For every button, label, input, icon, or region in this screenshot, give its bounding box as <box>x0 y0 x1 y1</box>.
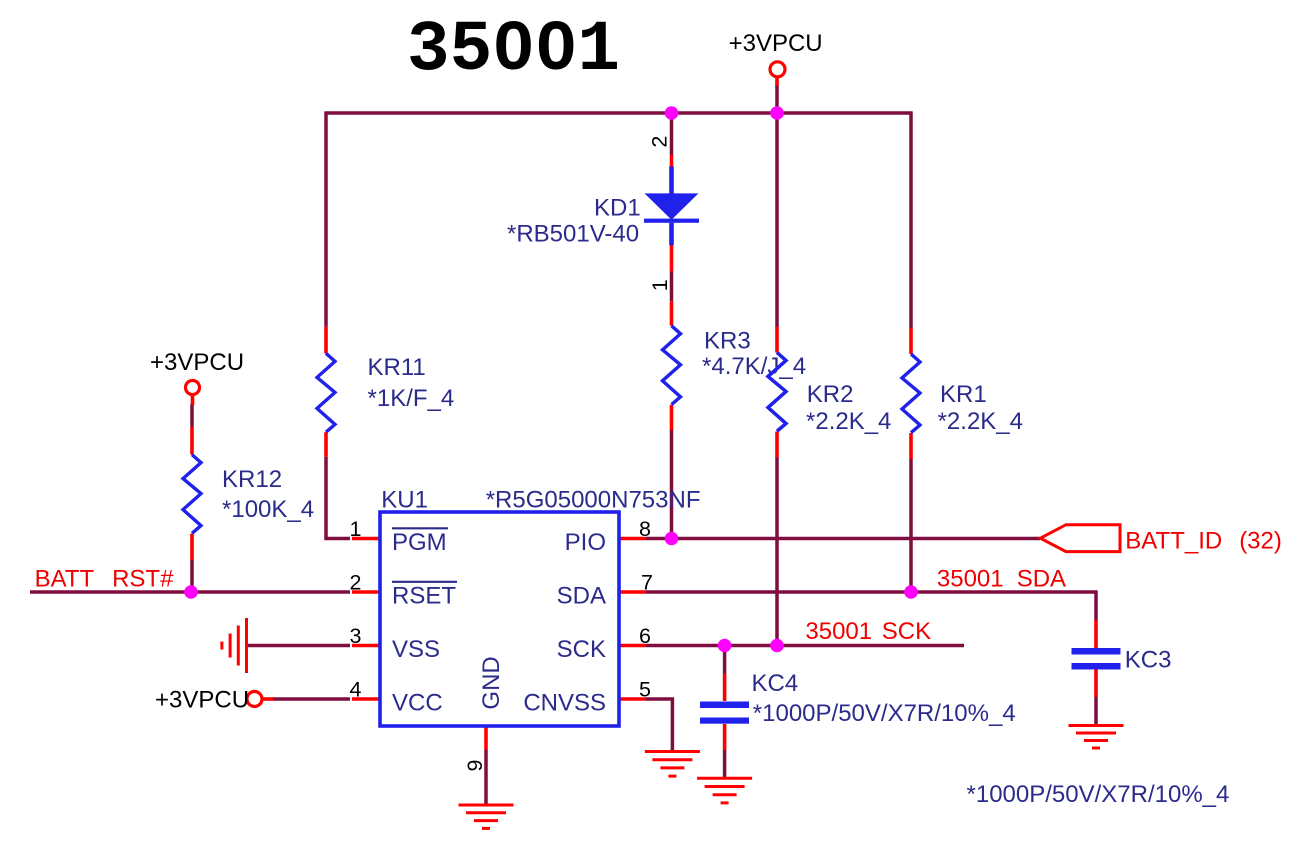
svg-text:2: 2 <box>350 571 362 595</box>
svg-text:PIO: PIO <box>565 529 606 556</box>
svg-text:35001: 35001 <box>937 566 1004 593</box>
svg-text:5: 5 <box>639 678 651 702</box>
svg-text:9: 9 <box>463 760 487 772</box>
svg-text:GND: GND <box>478 656 505 709</box>
svg-text:*1000P/50V/X7R/10%_4: *1000P/50V/X7R/10%_4 <box>967 781 1230 808</box>
svg-text:*4.7K/J_4: *4.7K/J_4 <box>702 353 806 380</box>
svg-text:*100K_4: *100K_4 <box>222 496 314 523</box>
svg-text:*2.2K_4: *2.2K_4 <box>806 408 891 435</box>
svg-text:KC4: KC4 <box>752 670 799 697</box>
svg-text:+3VPCU: +3VPCU <box>150 349 244 376</box>
svg-text:SDA: SDA <box>1017 566 1066 593</box>
svg-text:7: 7 <box>641 571 653 595</box>
svg-text:8: 8 <box>639 517 651 541</box>
svg-text:BATT: BATT <box>35 566 95 593</box>
svg-text:CNVSS: CNVSS <box>523 690 606 717</box>
svg-text:VSS: VSS <box>392 636 440 663</box>
svg-text:*1K/F_4: *1K/F_4 <box>368 385 455 412</box>
svg-text:SCK: SCK <box>557 636 606 663</box>
svg-text:4: 4 <box>350 678 362 702</box>
svg-text:*1000P/50V/X7R/10%_4: *1000P/50V/X7R/10%_4 <box>753 700 1016 727</box>
svg-text:*2.2K_4: *2.2K_4 <box>938 408 1023 435</box>
svg-text:PGM: PGM <box>392 529 447 556</box>
svg-text:BATT_ID: BATT_ID <box>1125 527 1222 554</box>
svg-text:(32): (32) <box>1239 527 1282 554</box>
svg-text:+3VPCU: +3VPCU <box>729 30 823 57</box>
svg-text:KR12: KR12 <box>222 466 282 493</box>
svg-text:1: 1 <box>350 517 362 541</box>
svg-text:KR1: KR1 <box>940 381 987 408</box>
svg-text:+3VPCU: +3VPCU <box>155 687 249 714</box>
svg-text:KC3: KC3 <box>1125 647 1172 674</box>
svg-text:KR2: KR2 <box>807 381 854 408</box>
svg-text:35001: 35001 <box>805 618 872 645</box>
svg-text:3: 3 <box>350 624 362 648</box>
svg-text:SCK: SCK <box>882 618 931 645</box>
svg-text:KU1: KU1 <box>381 487 428 514</box>
svg-text:*RB501V-40: *RB501V-40 <box>507 221 639 248</box>
svg-text:VCC: VCC <box>392 690 443 717</box>
svg-text:RSET: RSET <box>392 583 456 610</box>
svg-text:*R5G05000N753NF: *R5G05000N753NF <box>486 487 701 514</box>
svg-text:KR11: KR11 <box>368 354 426 381</box>
svg-text:SDA: SDA <box>557 583 606 610</box>
svg-text:KR3: KR3 <box>704 328 751 355</box>
svg-text:1: 1 <box>648 279 672 291</box>
svg-text:KD1: KD1 <box>594 195 641 222</box>
svg-text:2: 2 <box>648 136 672 148</box>
svg-text:6: 6 <box>639 624 651 648</box>
svg-text:RST#: RST# <box>112 566 174 593</box>
